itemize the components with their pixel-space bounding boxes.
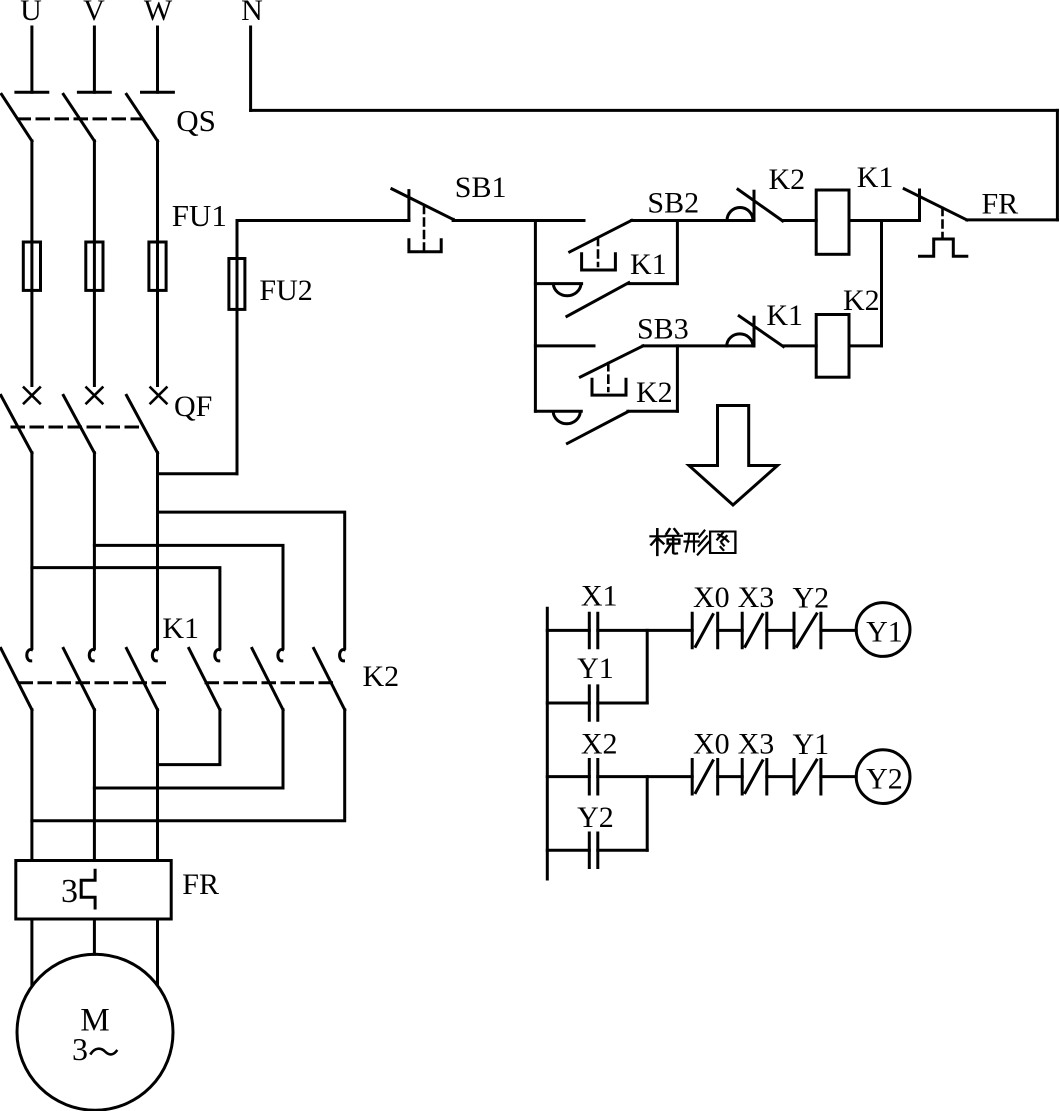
switch QS blade U [2,94,32,141]
rung2 wire Y1 to coil Y2 [821,775,856,778]
title ladder-diagram char 形 [684,531,708,555]
wire V K1-to-FR [93,710,96,861]
wire K1NC to coil K2 [783,344,816,347]
svg-text:SB1: SB1 [455,171,507,204]
latch branch Y1 wire to junction [598,702,647,705]
contactor K1 main contact 1 [27,650,32,661]
wire U QF-to-K1 [30,453,33,649]
wire FR to N rail [967,218,1058,221]
svg-text:X0: X0 [693,728,730,761]
wire W QF-to-K1 [156,453,159,649]
wire rail SB3 branch down [676,346,679,411]
breaker QF cross V [86,388,102,404]
switch QS terminal bar U [16,91,48,94]
thermal relay FR heater symbol [81,870,95,908]
wire SB2 to K2 contact [632,219,754,222]
wire SB3 to K1 contact [643,344,754,347]
motor 3-phase tilde wave [91,1049,117,1055]
output coil Y2 circle [856,750,910,804]
wire row4 to rail [628,410,678,413]
svg-text:Y2: Y2 [793,582,830,615]
wire U QS-to-FU1 [30,141,33,242]
contact K2 aux NO row4 arc [553,412,580,424]
switch QS linkage dashed [18,117,142,120]
svg-text:3: 3 [72,1031,88,1067]
pushbutton SB3 cap bracket [592,379,626,395]
svg-text:Y2: Y2 [577,801,614,834]
rung1 wire rail to X1 [547,629,589,632]
coil K1 [816,190,849,254]
svg-text:K1: K1 [857,161,894,194]
wire W crossover to K2 phase3 [158,512,345,648]
svg-text:FR: FR [182,868,219,901]
svg-text:X1: X1 [581,580,618,613]
fuse FU1 V [86,242,103,290]
svg-text:QF: QF [174,390,212,423]
rung1 wire X1 to X0 [598,629,692,632]
contact K2 aux NO blade [567,412,628,444]
output coil Y1 circle [856,603,910,657]
pushbutton SB3 actuator dashed [607,363,610,391]
wire row2 to rail [629,282,678,285]
contact X3 NC rung1 [742,613,767,647]
svg-text:W: W [144,0,173,27]
svg-text:QS: QS [176,103,216,138]
contact X3 NC rung2 [742,760,767,795]
wire K2 phase3 return to U [32,710,345,821]
wire V QF-to-K1 [93,453,96,649]
contact FR NC stem [918,190,921,221]
wire V FR-to-motor [93,919,96,954]
switch QS terminal bar W [142,91,174,94]
contact X0 NC rung2 [692,760,718,795]
contact Y1 NO latch [589,686,598,720]
svg-text:X3: X3 [738,728,775,761]
wire FU2 to SB1 [237,219,409,222]
rung2 wire X3 to Y1 [767,775,794,778]
wire phase V drop [93,27,96,92]
coil K2 [816,315,849,378]
latch branch Y1 wire [547,702,589,705]
wire V FU1-to-QF [93,290,96,385]
junction rung1 latch vertical [646,630,649,703]
wire W FR-to-motor [156,919,159,984]
svg-text:K1: K1 [766,299,803,332]
rung2 wire X2 to X0 [598,775,692,778]
fuse FU1 U [23,242,40,290]
svg-text:Y1: Y1 [577,652,614,685]
breaker QF cross W [151,388,167,404]
contact Y1 NC rung2 [794,760,821,795]
svg-text:FR: FR [982,187,1019,220]
breaker QF blade U [1,395,32,452]
title ladder-diagram char 图 [710,532,735,554]
junction rung2 latch vertical [646,777,649,851]
contact K2 NC stem [753,191,756,220]
svg-text:Y2: Y2 [866,763,903,796]
wire right rail K2 branch [880,221,883,346]
wire W QS-to-FU1 [156,141,159,242]
svg-text:SB2: SB2 [647,187,699,220]
wire K2 phase2 return to V [94,710,283,788]
contact K1 aux NO blade [567,283,629,317]
svg-text:K2: K2 [636,376,673,409]
switch QS terminal bar V [78,91,110,94]
latch branch Y2 wire to junction [598,849,647,852]
wire V crossover to K2 phase2 [94,545,283,648]
svg-text:N: N [241,0,263,27]
ladder left rail [546,608,549,879]
svg-text:V: V [83,0,105,27]
switch QS blade V [63,94,94,141]
fuse FU1 W [149,242,166,290]
wire U crossover to K2 phase1 [32,568,220,649]
wire SB1 to SB2 [453,219,584,220]
contact K1 aux NO row2 arc [553,284,581,296]
wire coil K1 to FR contact [849,219,920,222]
breaker QF cross U [24,388,40,404]
wire phase U drop [30,27,33,92]
node left rail junction [534,221,537,412]
breaker QF blade W [127,395,158,452]
wire phase W drop [156,27,159,92]
svg-text:K1: K1 [630,248,667,281]
contactor K2 main contact 3 [340,650,345,661]
fuse FU2 wire drop [236,221,239,474]
svg-text:X0: X0 [693,581,730,614]
contactor K1 linkage dashed [20,681,167,684]
contact K1 NC stem [753,317,756,346]
wire K2 phase1 return to W [158,710,220,765]
svg-text:FU2: FU2 [259,274,312,307]
contact X1 NO [589,613,598,647]
wire U FR-to-motor [30,919,33,985]
wire row4 from rail [535,410,581,413]
wire N horizontal to right rail [251,109,1058,112]
svg-text:K2: K2 [843,284,880,317]
rung1 wire Y2 to coil Y1 [821,629,856,632]
contact K2 NC blade [738,189,783,221]
thermal relay FR box [16,861,171,920]
contact K1 NC blade [739,316,783,347]
wire K2NC to coil K1 [783,219,817,222]
contact Y2 NO latch [589,833,598,868]
pushbutton SB1 blade [392,189,453,220]
wire W to FU2 tap [158,472,238,475]
pushbutton SB1 cap bracket [409,240,441,252]
rung1 wire X0 to X3 [718,629,743,632]
wire N right rail down [1056,110,1059,219]
switch QS blade W [127,94,158,141]
pushbutton SB2 cap bracket [582,254,616,270]
contactor K1 main contact 2 [89,650,94,661]
contactor K2 linkage dashed [206,681,333,684]
contactor K2 main contact 1 [215,650,220,661]
breaker QF blade V [63,395,94,452]
breaker QF linkage dashed [12,426,141,429]
pushbutton SB2 actuator dashed [597,238,600,266]
contactor K1 main contact 3 [152,650,157,661]
contact X2 NO [589,760,598,795]
contact FR actuator dashed [941,208,944,239]
svg-text:K1: K1 [162,612,199,645]
wire U FU1-to-QF [30,290,33,385]
contact K2 NC row1 arc [727,208,753,221]
rung2 wire X0 to X3 [718,775,743,778]
svg-text:X2: X2 [581,728,618,761]
svg-text:SB3: SB3 [637,313,689,346]
wire W K1-to-FR [156,710,159,861]
svg-text:K2: K2 [363,660,400,693]
svg-text:X3: X3 [738,581,775,614]
pushbutton SB2 blade [570,220,632,252]
svg-text:Y1: Y1 [866,616,903,649]
contact FR NC blade [904,189,967,220]
wire W FU1-to-QF [156,290,159,385]
contact K1 NC row3 arc [727,334,753,346]
arrow down symbol [689,406,778,506]
contact FR heater symbol [920,239,967,256]
svg-text:Y1: Y1 [793,728,830,761]
rung1 wire X3 to Y2 [767,629,794,632]
pushbutton SB1 stem [407,191,410,221]
motor M circle [17,954,173,1110]
pushbutton SB3 blade [580,346,643,377]
wire row2 from rail [535,282,581,285]
svg-text:3: 3 [61,873,78,910]
wire rail SB2 branch down [676,221,679,284]
title ladder-diagram char 梯 [651,529,682,555]
pushbutton SB1 actuator dashed [423,206,426,250]
wire V QS-to-FU1 [93,141,96,242]
wire row3 from rail [535,344,594,347]
wire N vertical [249,27,252,110]
svg-text:FU1: FU1 [172,198,227,233]
rung2 wire rail to X2 [547,775,589,778]
contact Y2 NC rung1 [794,613,821,647]
svg-text:K2: K2 [769,163,806,196]
svg-text:U: U [20,0,42,27]
contact X0 NC rung1 [692,613,718,647]
fuse FU2 [229,259,245,310]
wire U K1-to-FR [30,710,33,861]
wire coil K2 to right rail [849,344,882,347]
contactor K2 main contact 2 [278,650,283,661]
latch branch Y2 wire [547,849,589,852]
